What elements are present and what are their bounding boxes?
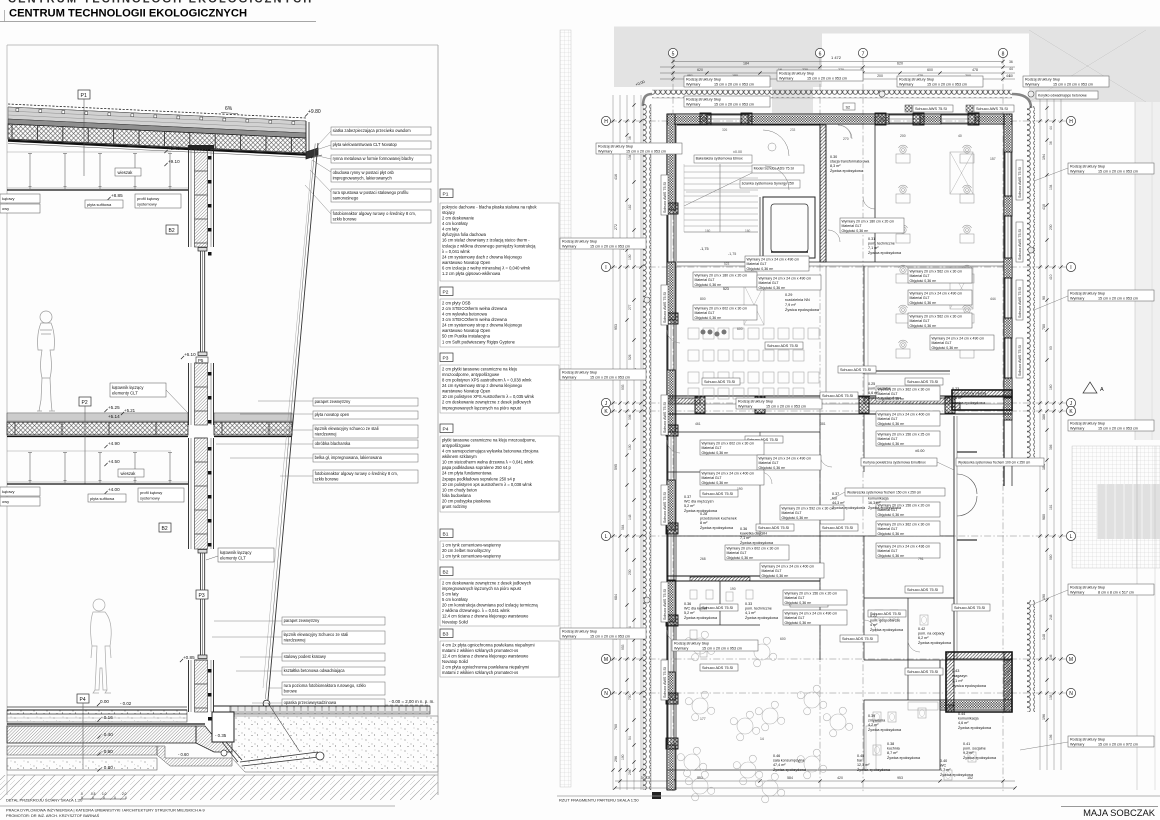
- svg-text:Objętość 0,36 m³: Objętość 0,36 m³: [702, 481, 729, 485]
- svg-text:Żywica epoksydowa: Żywica epoksydowa: [868, 395, 902, 400]
- svg-text:0.36: 0.36: [740, 527, 747, 531]
- svg-text:- 0.00 = 2,00 m n. p. m.: - 0.00 = 2,00 m n. p. m.: [389, 699, 435, 704]
- svg-text:kątowy: kątowy: [2, 196, 14, 201]
- svg-text:800: 800: [700, 297, 706, 301]
- svg-text:8,7 m²: 8,7 m²: [887, 751, 898, 755]
- svg-text:620: 620: [897, 62, 903, 66]
- svg-text:płytki tarasowe ceramiczne na: płytki tarasowe ceramiczne na kleju mroz…: [442, 437, 536, 442]
- svg-text:Objętość 0,36 m³: Objętość 0,36 m³: [878, 554, 905, 558]
- svg-text:Materiał GLT: Materiał GLT: [702, 476, 723, 480]
- svg-text:620: 620: [697, 68, 703, 72]
- svg-text:7: 7: [862, 51, 865, 57]
- svg-text:15 cm x 20 cm x 953 cm: 15 cm x 20 cm x 953 cm: [1098, 426, 1138, 430]
- svg-text:płyta sufitowa: płyta sufitowa: [90, 496, 115, 501]
- svg-text:kształtka betonowa odwadniając: kształtka betonowa odwadniająca: [284, 668, 346, 673]
- svg-text:196: 196: [1042, 714, 1046, 720]
- svg-text:Wymiary: Wymiary: [1070, 590, 1084, 594]
- svg-text:Novatop Solid: Novatop Solid: [442, 659, 468, 664]
- svg-text:warstwowo Novatop Open: warstwowo Novatop Open: [442, 389, 491, 394]
- svg-text:3 cm STEICOtherm wełna drzewn: 3 cm STEICOtherm wełna drzewna: [442, 317, 508, 322]
- svg-text:Schuco AWS 75.SI: Schuco AWS 75.SI: [663, 182, 667, 213]
- svg-text:8,3 m²: 8,3 m²: [830, 164, 841, 168]
- S2 axis box: [843, 103, 855, 110]
- svg-text:+5.25: +5.25: [108, 405, 120, 410]
- roof right end cap / gutter: [302, 121, 322, 159]
- svg-text:+4.90: +4.90: [108, 441, 120, 446]
- magazyn thick walls: [946, 652, 1012, 712]
- svg-text:M: M: [1069, 657, 1073, 663]
- svg-text:177: 177: [700, 717, 706, 721]
- soil hatch band: [0, 775, 438, 800]
- svg-text:Żywica epoksydowa: Żywica epoksydowa: [918, 640, 952, 645]
- svg-text:15 cm x 20 cm x 953 cm: 15 cm x 20 cm x 953 cm: [590, 375, 630, 379]
- mid building wall band J-K: [667, 395, 1012, 397]
- spec block P4: [440, 424, 453, 433]
- B2 marker upper: [166, 225, 178, 234]
- svg-text:P4: P4: [443, 427, 449, 433]
- svg-text:36: 36: [1009, 60, 1013, 64]
- svg-text:Schuco AWS 75.SI: Schuco AWS 75.SI: [1018, 167, 1022, 198]
- plan left wall column blocks: [666, 203, 678, 214]
- svg-text:7,1 m²: 7,1 m²: [868, 246, 879, 250]
- svg-text:15 cm x 20 cm x 953 cm: 15 cm x 20 cm x 953 cm: [1053, 82, 1093, 86]
- svg-text:Objętość 0,36 m³: Objętość 0,36 m³: [878, 532, 905, 536]
- svg-text:160: 160: [705, 229, 711, 233]
- svg-text:rozdzielnia NN: rozdzielnia NN: [785, 298, 810, 302]
- leader lines rodzaj: [1034, 168, 1068, 181]
- svg-text:+9.10: +9.10: [168, 159, 180, 164]
- svg-text:Wymiary 24 cm x 24 cm x 400 c: Wymiary 24 cm x 24 cm x 400 cm: [702, 472, 755, 476]
- svg-text:kątownik łączący: kątownik łączący: [220, 550, 252, 555]
- svg-text:pom. socjalne: pom. socjalne: [963, 747, 986, 751]
- svg-text:Schuco ADS 75.SI: Schuco ADS 75.SI: [840, 368, 871, 372]
- desk rows mid-left open office: [688, 328, 699, 339]
- svg-text:Materiał GLT: Materiał GLT: [695, 278, 716, 282]
- svg-text:953: 953: [614, 324, 618, 330]
- svg-text:381: 381: [820, 422, 826, 426]
- svg-text:nierdzewnej: nierdzewnej: [284, 637, 306, 642]
- svg-text:Wymiary: Wymiary: [738, 404, 752, 408]
- wall end marker bottom: [652, 792, 661, 799]
- svg-text:1,7 m²: 1,7 m²: [940, 768, 951, 772]
- svg-text:2 cm STEICOtherm wełna drzewn: 2 cm STEICOtherm wełna drzewna: [442, 306, 508, 311]
- svg-text:CENTRUM TECHNOLOGII EKOLOGICZN: CENTRUM TECHNOLOGII EKOLOGICZNYCH: [9, 8, 247, 20]
- svg-text:Materiał GLT: Materiał GLT: [727, 551, 748, 555]
- svg-text:Wymiary 20 cm x 180 cm x 20 c: Wymiary 20 cm x 180 cm x 20 cm: [695, 274, 748, 278]
- rooms around y430-530 walls: [667, 431, 820, 433]
- spec block P3: [440, 353, 453, 362]
- svg-text:parapet zewnętrzny: parapet zewnętrzny: [284, 618, 321, 623]
- svg-text:190: 190: [621, 754, 625, 760]
- svg-text:Schuco ADS 75.SI: Schuco ADS 75.SI: [702, 492, 733, 496]
- svg-text:15 cm x 20 cm x 953 cm: 15 cm x 20 cm x 953 cm: [714, 102, 754, 106]
- plan bottom right wall segment: [1005, 660, 1011, 700]
- svg-text:791: 791: [918, 557, 924, 561]
- svg-text:+5.14: +5.14: [108, 414, 120, 419]
- svg-text:profil kątowy: profil kątowy: [140, 490, 162, 495]
- svg-text:Wymiary 24 cm x 24 cm x 490 c: Wymiary 24 cm x 24 cm x 490 cm: [932, 337, 985, 341]
- svg-text:1 472: 1 472: [831, 55, 842, 60]
- exterior speckled concrete: [232, 716, 438, 772]
- triangle marker A: [1083, 382, 1097, 393]
- svg-text:Objętość 0,36 m³: Objętość 0,36 m³: [695, 283, 722, 287]
- svg-text:Rodzaj struktury Słup: Rodzaj struktury Słup: [674, 642, 709, 646]
- svg-text:14: 14: [760, 737, 764, 741]
- svg-text:Objętość 0,36 m³: Objętość 0,36 m³: [878, 513, 905, 517]
- svg-text:nierdzewnej: nierdzewnej: [315, 431, 337, 436]
- P1 marker: [78, 90, 90, 99]
- svg-text:Schuco ADS 75.SI: Schuco ADS 75.SI: [822, 394, 853, 398]
- svg-text:Żywica epoksydowa: Żywica epoksydowa: [868, 250, 902, 255]
- svg-text:WC dla kobiet: WC dla kobiet: [684, 607, 707, 611]
- svg-text:4 cm kontrłaty: 4 cm kontrłaty: [442, 221, 469, 226]
- upper right open office desks: [896, 145, 910, 163]
- svg-text:B1: B1: [443, 532, 449, 538]
- plan top wall: [667, 113, 1012, 115]
- svg-text:- 0.60: - 0.60: [178, 752, 189, 757]
- desk X tables: [950, 152, 973, 194]
- svg-text:płyta novatop open: płyta novatop open: [315, 412, 350, 417]
- svg-text:łącznik elewacyjny Schueco ze: łącznik elewacyjny Schueco ze stali: [284, 632, 349, 637]
- svg-text:Schuco ADS 75.SI: Schuco ADS 75.SI: [954, 606, 985, 610]
- svg-text:Objętość 0,36 m³: Objętość 0,36 m³: [762, 574, 789, 578]
- svg-text:Wymiary: Wymiary: [1025, 82, 1039, 86]
- svg-text:Wymiary 20 cm x 156 cm x 20 c: Wymiary 20 cm x 156 cm x 20 cm: [785, 592, 838, 596]
- svg-text:DETAL PRZEKROJU ŚCIANY SKALA 1: DETAL PRZEKROJU ŚCIANY SKALA 1:20: [6, 798, 83, 803]
- scale bar: [82, 798, 126, 800]
- svg-text:- 0.02: - 0.02: [120, 701, 132, 706]
- svg-text:WC: WC: [940, 764, 946, 768]
- svg-text:antypoślizgowe: antypoślizgowe: [442, 443, 471, 448]
- svg-text:I: I: [1070, 265, 1071, 271]
- svg-text:Żywica epoksydowa: Żywica epoksydowa: [857, 767, 891, 772]
- door arcs stair core: [763, 130, 789, 156]
- svg-text:L: L: [1070, 534, 1073, 540]
- svg-text:Wymiary 24 cm x 24 cm x 490 c: Wymiary 24 cm x 24 cm x 490 cm: [759, 457, 812, 461]
- svg-text:15 cm x 20 cm x 953 cm: 15 cm x 20 cm x 953 cm: [766, 404, 806, 408]
- svg-text:wieszak: wieszak: [121, 471, 137, 476]
- svg-text:Wymiary: Wymiary: [1070, 169, 1084, 173]
- svg-text:Materiał GLT: Materiał GLT: [932, 341, 953, 345]
- svg-text:Materiał GLT: Materiał GLT: [762, 569, 783, 573]
- svg-text:700: 700: [628, 694, 632, 700]
- svg-text:borowe: borowe: [284, 688, 298, 693]
- grey stairs bottom-right: [1097, 484, 1160, 539]
- svg-text:Wymiary: Wymiary: [1070, 296, 1084, 300]
- svg-text:8 cm x 8 cm x 517 cm: 8 cm x 8 cm x 517 cm: [1098, 590, 1134, 594]
- svg-text:90: 90: [1042, 296, 1046, 300]
- svg-text:H: H: [1069, 119, 1073, 125]
- katownik CLT label lower: [218, 548, 274, 562]
- svg-text:54: 54: [628, 736, 632, 740]
- svg-text:0.41: 0.41: [963, 742, 970, 746]
- svg-text:Rodzaj struktury Słup: Rodzaj struktury Słup: [1025, 78, 1060, 82]
- svg-text:mrozoodporne, antypoślizgowe: mrozoodporne, antypoślizgowe: [442, 372, 500, 377]
- svg-text:przedsionek kuchenek: przedsionek kuchenek: [700, 517, 737, 521]
- svg-text:MAJA SOBCZAK: MAJA SOBCZAK: [1083, 807, 1156, 818]
- svg-text:Wymiary 24 cm x 24 cm x 490 c: Wymiary 24 cm x 24 cm x 490 cm: [747, 258, 800, 262]
- svg-text:326: 326: [722, 128, 728, 132]
- svg-text:104: 104: [628, 154, 632, 160]
- svg-text:5 cm łaty: 5 cm łaty: [442, 592, 459, 597]
- svg-text:181: 181: [1049, 504, 1053, 510]
- svg-text:6 cm izolacja z wełny mineral: 6 cm izolacja z wełny mineralnej λ = 0,0…: [442, 265, 531, 270]
- svg-text:Rodzaj struktury Słup: Rodzaj struktury Słup: [562, 240, 597, 244]
- svg-text:WC dla mężczyzn: WC dla mężczyzn: [684, 500, 714, 504]
- svg-text:CENTRUM TECHNOLOGII EKOLOGICZN: CENTRUM TECHNOLOGII EKOLOGICZNYCH: [8, 0, 313, 6]
- mid floor slab terrace: [214, 413, 292, 422]
- B2 marker lower: [159, 523, 171, 532]
- svg-text:impregnowanych łączonych na pi: impregnowanych łączonych na pióro wpust: [442, 405, 522, 410]
- svg-text:fotobioreaktor algowy rurowy o: fotobioreaktor algowy rurowy o średnicy …: [315, 471, 398, 476]
- svg-text:włóknem szklanym: włóknem szklanym: [442, 454, 477, 459]
- foundation slab hatched: [7, 726, 196, 743]
- svg-text:584: 584: [621, 524, 625, 530]
- svg-text:systemowy: systemowy: [140, 496, 160, 501]
- stair core walls: [677, 124, 820, 126]
- svg-text:268: 268: [700, 557, 706, 561]
- svg-text:478: 478: [972, 68, 978, 72]
- labels roof right set: [331, 127, 431, 135]
- svg-text:siatka zabezpieczająca przeciw: siatka zabezpieczająca przeciwko owadom: [333, 128, 412, 133]
- person figure man: [91, 599, 112, 693]
- svg-text:6,6 m²: 6,6 m²: [868, 391, 879, 395]
- svg-text:M: M: [604, 657, 608, 663]
- svg-text:44: 44: [1009, 67, 1013, 71]
- svg-text:0.37: 0.37: [832, 492, 839, 496]
- svg-text:Żywica epoksydowa: Żywica epoksydowa: [700, 525, 734, 530]
- room walls lower mid: [667, 535, 954, 537]
- svg-text:4,1 m²: 4,1 m²: [745, 611, 756, 615]
- grey area right margin strip: [1135, 102, 1160, 440]
- svg-text:194: 194: [1042, 154, 1046, 160]
- svg-text:impregnowanych, lakierowanych: impregnowanych, lakierowanych: [333, 175, 393, 180]
- svg-text:samonośnego: samonośnego: [333, 195, 359, 200]
- svg-text:780: 780: [1042, 324, 1046, 330]
- svg-text:12.4 cm ściana z drewna klejon: 12.4 cm ściana z drewna klejonego warstw…: [442, 654, 529, 659]
- svg-text:4 m²: 4 m²: [870, 623, 878, 627]
- svg-text:416: 416: [614, 174, 618, 180]
- svg-text:0.23: 0.23: [952, 387, 959, 391]
- svg-text:15 cm x 20 cm x 953 cm: 15 cm x 20 cm x 953 cm: [807, 76, 847, 80]
- svg-text:24 cm systemowy strop z drewna: 24 cm systemowy strop z drewna klejonego: [442, 323, 523, 328]
- svg-text:4 cm samopoziomująca wylewka: 4 cm samopoziomująca wylewka betonowa zb…: [442, 449, 539, 454]
- lean concrete speckle band: [7, 758, 157, 770]
- svg-text:15 cm x 20 cm x 953 cm: 15 cm x 20 cm x 953 cm: [626, 149, 666, 153]
- upper suspended ceiling: [7, 151, 171, 153]
- svg-text:±0.00: ±0.00: [733, 150, 742, 154]
- svg-text:0.29: 0.29: [785, 293, 792, 297]
- schuco labels top: [913, 105, 953, 112]
- svg-text:0.25: 0.25: [868, 382, 875, 386]
- svg-text:10 cm polistyren XPS Austrothe: 10 cm polistyren XPS Austrotherm λ = 0,0…: [442, 394, 535, 399]
- svg-text:elementy CLT: elementy CLT: [112, 391, 138, 396]
- plan top wall column blocks: [700, 113, 711, 125]
- svg-text:±0.00: ±0.00: [915, 449, 924, 453]
- svg-text:15 cm x 20 cm x 953 cm: 15 cm x 20 cm x 953 cm: [590, 244, 630, 248]
- bathroom fixtures: [690, 590, 697, 599]
- scallop band left vertical: [643, 104, 651, 790]
- wall above pom ochrony: [864, 370, 950, 372]
- svg-text:matami z włókien szklanych pro: matami z włókien szklanych promatect-xs: [442, 670, 518, 675]
- svg-text:Schuco AWS 75.SI: Schuco AWS 75.SI: [663, 292, 667, 323]
- svg-text:+6.10: +6.10: [184, 352, 196, 357]
- svg-text:248: 248: [1049, 614, 1053, 620]
- svg-text:0.38: 0.38: [887, 742, 894, 746]
- svg-text:15 cm x 20 cm x 953 cm: 15 cm x 20 cm x 953 cm: [714, 82, 754, 86]
- svg-text:Rodzaj struktury Słup: Rodzaj struktury Słup: [686, 78, 721, 82]
- svg-text:6,2 m²: 6,2 m²: [918, 636, 929, 640]
- svg-text:magazyn: magazyn: [952, 674, 967, 678]
- svg-text:izolacja z włókna drzewnego po: izolacja z włókna drzewnego pomiędzy kon…: [442, 243, 536, 248]
- scallop band right corner: [1012, 94, 1031, 108]
- svg-text:523: 523: [723, 287, 729, 291]
- svg-text:komunikacja: komunikacja: [868, 497, 889, 501]
- svg-text:0.37: 0.37: [684, 495, 691, 499]
- svg-text:684: 684: [614, 594, 618, 600]
- svg-text:łącznik elewacyjny schueco ze: łącznik elewacyjny schueco ze stali: [315, 426, 379, 431]
- svg-text:4,6 m²: 4,6 m²: [952, 396, 963, 400]
- svg-text:233: 233: [790, 128, 796, 132]
- svg-text:Schuco AWS 75.SI: Schuco AWS 75.SI: [663, 667, 667, 698]
- svg-text:belka gł, impregnowana, lakier: belka gł, impregnowana, lakierowana: [315, 455, 383, 460]
- mid wall segment above floor: [188, 363, 190, 425]
- svg-text:Objętość 0,36 m³: Objętość 0,36 m³: [910, 301, 937, 305]
- svg-text:7,1 m²: 7,1 m²: [740, 536, 751, 540]
- labels mid set: [313, 398, 418, 406]
- svg-text:6: 6: [819, 51, 822, 57]
- svg-text:Materiał GLT: Materiał GLT: [785, 616, 806, 620]
- svg-text:stalowy podest kratowy: stalowy podest kratowy: [284, 654, 327, 659]
- svg-text:4 cm wylewka betonowa: 4 cm wylewka betonowa: [442, 312, 488, 317]
- svg-text:-1,75: -1,75: [700, 247, 709, 251]
- svg-text:Wymiary 20 cm x 602 cm x 30 c: Wymiary 20 cm x 602 cm x 30 cm: [695, 307, 748, 311]
- svg-text:190: 190: [730, 587, 736, 591]
- svg-text:rynna metalowa w formie formow: rynna metalowa w formie formowanej blach…: [333, 156, 415, 161]
- spec block B3: [440, 629, 453, 638]
- svg-text:2 cm płyta ogniochronna powlek: 2 cm płyta ogniochronna powlekana niepal…: [442, 665, 529, 670]
- svg-text:płyta wielowarstwowa CLT Novat: płyta wielowarstwowa CLT Novatop: [333, 142, 398, 147]
- bottom dimension line: [615, 780, 1015, 782]
- svg-text:Schuco AWS 75.SI: Schuco AWS 75.SI: [915, 107, 947, 111]
- person figure woman: [37, 311, 55, 411]
- middle column border: [437, 45, 439, 795]
- svg-text:+4.50: +4.50: [108, 459, 120, 464]
- scallop band right vertical upper: [1027, 106, 1035, 460]
- drain pipes: [222, 742, 238, 762]
- svg-text:157: 157: [990, 157, 996, 161]
- svg-text:15 cm x 20 cm x 953 cm: 15 cm x 20 cm x 953 cm: [1098, 296, 1138, 300]
- svg-text:P3: P3: [443, 356, 449, 362]
- svg-text:owy: owy: [2, 499, 9, 504]
- mid wall column blocks: [695, 397, 705, 413]
- svg-text:2 cm deskowanie zewnętrzne z: 2 cm deskowanie zewnętrzne z desek jodło…: [442, 400, 532, 405]
- svg-text:184: 184: [743, 62, 749, 66]
- svg-text:Materiał GLT: Materiał GLT: [878, 437, 899, 441]
- svg-text:z włókna drzewnego. λ = 0,041: z włókna drzewnego. λ = 0,041 wlmk: [442, 608, 510, 613]
- svg-text:Żywica epoksydowa: Żywica epoksydowa: [868, 727, 902, 732]
- svg-text:20 cm konstrukcja drewniana po: 20 cm konstrukcja drewniana pod izolację…: [442, 603, 538, 608]
- mid floor slab interior: [7, 413, 188, 422]
- stair labels: [694, 155, 752, 163]
- svg-text:pom. ochrony mienia: pom. ochrony mienia: [952, 392, 987, 396]
- svg-text:36: 36: [628, 136, 632, 140]
- spec block B1: [440, 529, 453, 538]
- svg-text:RZUT FRAGMENTU PARTERU SKALA 1: RZUT FRAGMENTU PARTERU SKALA 1:50: [559, 798, 639, 803]
- svg-text:Wymiary 20 cm x 562 cm x 30 c: Wymiary 20 cm x 562 cm x 30 cm: [910, 315, 963, 319]
- rodzaj struktury boxes top: [684, 76, 770, 87]
- svg-text:Materiał GLT: Materiał GLT: [878, 417, 899, 421]
- svg-text:15 cm x 20 cm x 953 cm: 15 cm x 20 cm x 953 cm: [927, 82, 967, 86]
- svg-text:P5: P5: [198, 358, 204, 363]
- svg-text:Wymiary 20 cm x 562 cm x 30 c: Wymiary 20 cm x 562 cm x 30 cm: [910, 270, 963, 274]
- svg-text:0.44: 0.44: [958, 712, 965, 716]
- svg-text:Żywica epoksydowa: Żywica epoksydowa: [952, 683, 987, 688]
- svg-text:Materiał GLT: Materiał GLT: [878, 549, 899, 553]
- svg-text:Rodzaj struktury Słup: Rodzaj struktury Słup: [1070, 165, 1105, 169]
- plan right wall lower part: [1005, 398, 1011, 420]
- svg-text:10 cm polistyren xps austrothe: 10 cm polistyren xps austrotherm λ = 0,0…: [442, 482, 533, 487]
- svg-text:Schuco ADS 75.SI: Schuco ADS 75.SI: [758, 526, 789, 530]
- svg-text:4 cm 2x płyta ogniochronna po: 4 cm 2x płyta ogniochronna powlekana nie…: [442, 642, 535, 647]
- svg-text:Wymiary: Wymiary: [779, 76, 793, 80]
- svg-text:Rodzaj struktury Słup: Rodzaj struktury Słup: [598, 145, 633, 149]
- fotobioreaktor diagonal glass facade: [268, 143, 318, 700]
- svg-text:Novatop Solid: Novatop Solid: [442, 619, 468, 624]
- P4 marker: [77, 694, 89, 703]
- svg-text:Wymiary 24 cm x 24 cm x 400 c: Wymiary 24 cm x 24 cm x 400 cm: [762, 565, 815, 569]
- svg-text:980: 980: [1049, 554, 1053, 560]
- svg-text:0.42: 0.42: [918, 627, 925, 631]
- rodzaj boxes margins: [560, 238, 646, 249]
- svg-text:104: 104: [1049, 184, 1053, 190]
- svg-text:953: 953: [621, 644, 625, 650]
- svg-text:Objętość 0,36 m³: Objętość 0,36 m³: [782, 516, 809, 520]
- svg-text:Wudereszka systemowa Techem 15: Wudereszka systemowa Techem 150 cm x 250…: [847, 491, 921, 495]
- svg-text:2 cm płyty OSB: 2 cm płyty OSB: [442, 300, 471, 305]
- schuco labels vertical right wall: [1016, 160, 1023, 200]
- svg-text:Wymiary: Wymiary: [562, 375, 576, 379]
- svg-text:Żywica epoksydowa: Żywica epoksydowa: [870, 627, 904, 632]
- svg-text:Wymiary 20 cm x 362 cm x 30 c: Wymiary 20 cm x 362 cm x 30 cm: [878, 523, 931, 527]
- svg-text:Schuco ADS 75.SI: Schuco ADS 75.SI: [704, 380, 735, 384]
- svg-text:szkło borowe: szkło borowe: [315, 476, 340, 481]
- svg-text:0.22: 0.22: [870, 614, 877, 618]
- svg-text:10 cm steicotherm wełna drzewn: 10 cm steicotherm wełna drzewna λ = 0,04…: [442, 460, 534, 465]
- svg-text:584: 584: [787, 776, 793, 780]
- svg-text:Schuco ADS 75.SI: Schuco ADS 75.SI: [907, 588, 938, 592]
- svg-text:A: A: [1100, 387, 1104, 393]
- svg-text:Wymiary 20 cm x 602 cm x 30 c: Wymiary 20 cm x 602 cm x 30 cm: [727, 547, 780, 551]
- svg-text:Materiał GLT: Materiał GLT: [842, 224, 863, 228]
- xps band: [7, 746, 157, 755]
- svg-text:+4.00: +4.00: [108, 487, 120, 492]
- svg-text:0.45: 0.45: [857, 754, 864, 758]
- stair divider wall: [759, 197, 761, 262]
- svg-text:0.30: 0.30: [830, 155, 837, 159]
- svg-text:5: 5: [672, 51, 675, 57]
- svg-text:5,2 m²: 5,2 m²: [684, 504, 695, 508]
- svg-text:P2: P2: [82, 400, 88, 406]
- header clipped text remnant: [8, 0, 313, 6]
- svg-text:- 0.80: - 0.80: [101, 765, 113, 770]
- plan right wall: [1003, 114, 1005, 486]
- svg-text:Objętość 0,36 m³: Objętość 0,36 m³: [910, 279, 937, 283]
- svg-text:Wymiary 20 cm x 156 cm x 25 c: Wymiary 20 cm x 156 cm x 25 cm: [878, 433, 931, 437]
- svg-text:4,1 m²: 4,1 m²: [952, 679, 963, 683]
- spec block B2: [440, 567, 453, 576]
- svg-text:200: 200: [877, 74, 883, 78]
